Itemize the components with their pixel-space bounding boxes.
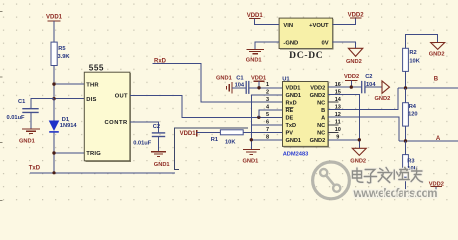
svg-text:VDD1: VDD1 xyxy=(286,85,301,91)
svg-text:6: 6 xyxy=(266,120,269,126)
svg-text:CONTR: CONTR xyxy=(104,120,128,126)
junction xyxy=(52,151,55,154)
RE overline xyxy=(286,107,294,109)
wire pin16 xyxy=(328,86,362,88)
wire cap to U1 pin1 xyxy=(249,87,283,89)
svg-text:NC: NC xyxy=(317,131,325,137)
svg-text:GND1: GND1 xyxy=(286,138,302,144)
svg-text:U1: U1 xyxy=(282,77,290,83)
svg-text:GND2: GND2 xyxy=(429,52,445,58)
svg-text:NC: NC xyxy=(317,100,325,106)
svg-text:GND1: GND1 xyxy=(19,138,35,144)
wire +VOUT to VDD2 xyxy=(333,18,356,25)
ground GND2 (top-right triangle) xyxy=(429,43,445,58)
ground GND1 (DC-DC) xyxy=(246,49,264,63)
watermark logo circle xyxy=(313,162,350,199)
junction xyxy=(350,85,353,88)
wire OUT to DE/RE xyxy=(130,95,283,117)
svg-text:GND1: GND1 xyxy=(286,93,302,99)
svg-text:GND2: GND2 xyxy=(310,138,326,144)
wire U1 pin12 to A xyxy=(328,117,399,141)
wire DIS xyxy=(54,98,84,100)
svg-text:TxD: TxD xyxy=(286,123,297,129)
svg-text:GND2: GND2 xyxy=(310,93,326,99)
svg-text:10K: 10K xyxy=(409,58,420,64)
svg-text:-GND: -GND xyxy=(283,40,298,46)
power port VDD1 (top-left) xyxy=(46,15,63,42)
svg-text:104: 104 xyxy=(235,83,245,89)
wire C1 to ground xyxy=(30,112,32,128)
watermark text (stylized glyphs) xyxy=(352,168,422,183)
wire R5 to THR/DIS node xyxy=(53,66,55,99)
ground GND2 (DC-DC, triangle) xyxy=(346,48,363,65)
svg-text:GND2: GND2 xyxy=(375,96,391,102)
annotation frame box xyxy=(175,128,249,170)
svg-text:THR: THR xyxy=(86,82,99,88)
555 timer xyxy=(84,63,130,161)
ground GND1 (under C2) xyxy=(151,152,170,168)
svg-text:A: A xyxy=(321,115,325,121)
svg-text:3.9K: 3.9K xyxy=(58,54,71,60)
svg-text:+VOUT: +VOUT xyxy=(309,23,329,29)
wire pin15 to GND2 xyxy=(328,95,359,149)
wire 0V to GND2 xyxy=(333,42,356,48)
svg-text:GND1: GND1 xyxy=(246,58,262,64)
junction xyxy=(257,86,260,89)
svg-text:555: 555 xyxy=(89,63,104,72)
svg-text:GND1: GND1 xyxy=(243,158,259,164)
wire C1 branch xyxy=(31,99,54,109)
svg-text:www.elecfans.com: www.elecfans.com xyxy=(353,188,438,200)
wire pin9 xyxy=(328,139,359,141)
svg-text:B: B xyxy=(321,108,325,114)
svg-text:10K: 10K xyxy=(225,139,236,145)
resistor R3 xyxy=(403,141,419,177)
wire -GND to ground xyxy=(255,42,279,49)
svg-text:C2: C2 xyxy=(365,74,372,80)
svg-text:0.01uF: 0.01uF xyxy=(133,140,152,146)
svg-text:A: A xyxy=(436,136,441,142)
svg-text:8: 8 xyxy=(266,135,269,141)
svg-text:TRIG: TRIG xyxy=(86,151,101,157)
wire TRIG xyxy=(54,152,84,154)
svg-text:GND2: GND2 xyxy=(346,59,362,65)
svg-text:C2: C2 xyxy=(153,124,160,130)
svg-text:C1: C1 xyxy=(236,75,243,81)
svg-text:PV: PV xyxy=(286,131,294,137)
svg-text:0.01uF: 0.01uF xyxy=(7,115,26,121)
svg-text:VIN: VIN xyxy=(283,23,293,29)
svg-text:VDD1: VDD1 xyxy=(251,75,266,81)
wire net A xyxy=(399,140,458,142)
wire TxD xyxy=(30,172,175,174)
power port VDD1 (DC-DC VIN) xyxy=(247,13,279,25)
svg-text:DE: DE xyxy=(286,115,294,121)
capacitor C1 (104 bypass) xyxy=(235,75,249,94)
wire R2 top to GND2 xyxy=(406,35,438,49)
wire R3 bottom to VDD2 xyxy=(406,177,437,194)
svg-text:R4: R4 xyxy=(409,104,417,110)
wire RE stub xyxy=(259,110,283,118)
DC-DC converter module xyxy=(279,18,333,61)
svg-text:C1: C1 xyxy=(18,99,25,105)
junction xyxy=(404,86,407,89)
svg-text:0V: 0V xyxy=(322,40,329,46)
svg-text:VDD1: VDD1 xyxy=(180,131,197,137)
wire R1 to PV pin7 xyxy=(243,131,282,133)
wire pin6 TxD xyxy=(252,124,283,126)
capacitor C2 (104 bypass) xyxy=(362,74,377,93)
wire U1 pin2 GND1 vertical xyxy=(251,95,282,150)
svg-text:VDD2: VDD2 xyxy=(344,74,359,80)
svg-text:3: 3 xyxy=(266,97,269,103)
junction xyxy=(358,138,361,141)
junction xyxy=(52,82,55,85)
wire gnd to cap xyxy=(232,87,246,89)
junction xyxy=(257,116,260,119)
U1 right NC pin stubs xyxy=(328,102,339,132)
resistor R1 xyxy=(211,130,243,146)
U1 right pin numbers xyxy=(335,82,342,141)
svg-text:7: 7 xyxy=(266,127,269,133)
ground GND1 (under U1) xyxy=(243,150,260,165)
power port VDD2 (DC-DC out) xyxy=(348,12,365,18)
ground GND2 (sideways triangle) xyxy=(375,81,391,102)
U1 left pin numbers xyxy=(266,82,270,141)
junction xyxy=(52,97,55,100)
svg-text:VDD2: VDD2 xyxy=(310,85,325,91)
wire CONTR to C2 xyxy=(130,122,159,133)
svg-text:DC-DC: DC-DC xyxy=(289,51,323,61)
svg-text:R3: R3 xyxy=(407,159,414,165)
svg-text:DIS: DIS xyxy=(86,97,96,103)
junction xyxy=(404,139,407,142)
diode D1 1N914 xyxy=(49,117,77,132)
wire node to D1 anode xyxy=(53,99,55,121)
wire THR xyxy=(54,83,84,85)
svg-text:120: 120 xyxy=(408,111,418,117)
svg-text:R5: R5 xyxy=(58,46,65,52)
wire RxD to U1 pin3 xyxy=(153,64,283,102)
capacitor C1 xyxy=(7,99,39,121)
svg-text:TxD: TxD xyxy=(29,166,41,172)
svg-text:ADM2483: ADM2483 xyxy=(283,152,309,158)
U1 right pin names xyxy=(310,85,326,144)
junction xyxy=(52,171,55,174)
svg-text:NC: NC xyxy=(317,123,325,129)
power port VDD2 (bottom-right) xyxy=(429,181,444,187)
wire U1 pin13 to B xyxy=(328,88,398,110)
resistor R5 xyxy=(51,42,70,65)
svg-text:5: 5 xyxy=(266,112,269,118)
power port VDD1 (U1 pin1) xyxy=(251,75,266,88)
svg-text:1N914: 1N914 xyxy=(60,123,78,129)
svg-text:R1: R1 xyxy=(211,137,218,143)
ground GND1 (sideways, C1 bypass) xyxy=(216,75,232,93)
power port VDD1 (R1) xyxy=(180,130,222,137)
wire pin8 xyxy=(251,139,282,141)
wire R2 bottom to B line xyxy=(405,71,407,88)
svg-text:D1: D1 xyxy=(62,117,69,123)
U1 left pin names xyxy=(286,85,302,144)
resistor R4 (120) xyxy=(403,88,418,141)
svg-text:1: 1 xyxy=(266,82,269,88)
capacitor C2 (0.01uF) xyxy=(133,124,165,146)
svg-text:VDD1: VDD1 xyxy=(46,15,63,21)
svg-text:OUT: OUT xyxy=(115,94,128,100)
wire net B xyxy=(398,87,458,89)
svg-text:GND1: GND1 xyxy=(154,162,170,168)
power port VDD2 (U1 pin16) xyxy=(344,74,359,87)
svg-text:GND1: GND1 xyxy=(216,75,232,81)
wire C2 to ground xyxy=(158,137,160,152)
svg-text:RxD: RxD xyxy=(286,100,297,106)
edge tick marks xyxy=(0,12,3,201)
svg-text:GND2: GND2 xyxy=(350,158,366,164)
resistor R2 xyxy=(403,48,421,71)
wire cap to GND2 xyxy=(365,86,382,88)
svg-text:B: B xyxy=(434,77,439,83)
ground GND1 (under C1) xyxy=(19,129,40,145)
wire D1 cathode to TRIG node xyxy=(53,133,55,173)
junction xyxy=(250,138,253,141)
svg-text:R2: R2 xyxy=(409,50,416,56)
svg-text:RE: RE xyxy=(286,108,294,114)
svg-text:2: 2 xyxy=(266,89,269,95)
IC U1 ADM2483 xyxy=(282,77,328,158)
ground GND2 (under U1, triangle) xyxy=(350,148,366,164)
